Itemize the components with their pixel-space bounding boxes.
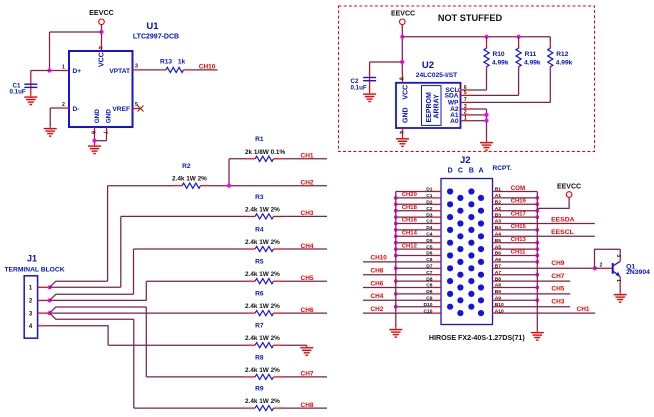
net label CH10 (U1) <box>199 63 216 70</box>
svg-text:2.4k 1W 2%: 2.4k 1W 2% <box>245 206 280 213</box>
pin U1-7 GND <box>102 127 108 136</box>
pin J2-D1 wire <box>396 187 441 193</box>
svg-text:NOT STUFFED: NOT STUFFED <box>438 13 503 23</box>
svg-text:CH11: CH11 <box>511 250 526 256</box>
pin J2-A8 wire <box>493 283 540 290</box>
pin J2-D9 wire <box>394 289 441 296</box>
label J1 <box>27 254 37 264</box>
svg-text:CH12: CH12 <box>402 243 418 249</box>
pin J2-A6 wire <box>493 257 540 264</box>
label R11 4.99k <box>524 51 541 67</box>
svg-text:B10: B10 <box>495 302 504 308</box>
node junction U1 GND <box>92 139 96 143</box>
wire J1-3 stub <box>46 312 50 314</box>
wire A2 to gnd bus <box>471 109 487 140</box>
wire R9 line <box>134 407 247 409</box>
svg-text:CH10: CH10 <box>199 63 216 70</box>
resistor R4 <box>247 246 282 251</box>
label ARRAY <box>433 94 440 119</box>
wire R5 drop <box>145 281 147 300</box>
ground D- <box>44 126 57 136</box>
svg-text:EESCL: EESCL <box>551 229 574 236</box>
wire R12 down <box>471 72 551 102</box>
node junction A1 <box>484 113 488 117</box>
power flag EEVCC (U1) <box>89 8 114 24</box>
net label CH4 <box>301 243 314 250</box>
svg-text:EESDA: EESDA <box>551 216 575 223</box>
svg-text:R7: R7 <box>255 323 264 330</box>
svg-text:D+: D+ <box>73 68 82 75</box>
svg-text:CH18: CH18 <box>402 205 418 211</box>
pin name GND (U1 pin7) <box>106 109 113 124</box>
svg-text:A6: A6 <box>495 257 502 263</box>
svg-text:R4: R4 <box>255 226 264 233</box>
label R7 <box>255 323 264 330</box>
svg-text:C4: C4 <box>426 232 433 238</box>
label C2 0.1uF <box>351 78 367 91</box>
capacitor C1 <box>24 77 37 95</box>
transistor Q1 symbol <box>613 261 621 277</box>
pin Q1-1 emitter <box>615 277 621 285</box>
label TERMINAL BLOCK <box>4 267 64 274</box>
svg-text:A8: A8 <box>495 283 502 289</box>
label LTC2997-DCB <box>133 34 179 41</box>
wire A0 to gnd bus <box>471 120 487 122</box>
pin J2-B2 wire <box>493 199 540 207</box>
svg-text:CH2: CH2 <box>301 180 314 187</box>
wire R8 line <box>146 376 246 378</box>
resistor R5 <box>247 279 282 284</box>
pin J2-D3 wire <box>394 212 441 219</box>
wire EEVCC rail <box>402 36 550 38</box>
no-connect X on VREF <box>138 106 144 112</box>
wire A1 to gnd bus <box>471 114 487 116</box>
pin J2-A4 wire (net EESCL) <box>493 229 595 237</box>
ground J2 left bus <box>389 327 402 337</box>
svg-text:A: A <box>478 168 483 175</box>
pin J1-3 <box>29 311 46 317</box>
svg-text:SDA: SDA <box>445 93 459 100</box>
pin U1-5 VREF <box>133 102 140 108</box>
pin J2-A7 wire <box>493 270 540 277</box>
wire R8 output <box>282 376 327 378</box>
label HIROSE <box>429 334 525 342</box>
wire R7 to ground <box>282 344 307 346</box>
svg-text:CH6: CH6 <box>301 307 314 314</box>
wire R4 line <box>134 248 247 250</box>
svg-text:R9: R9 <box>255 386 264 393</box>
wire R5 line <box>146 280 246 282</box>
svg-text:VREF: VREF <box>112 106 130 113</box>
svg-text:RCPT.: RCPT. <box>493 165 512 172</box>
pin J2-A10 wire (net CH1) <box>493 306 596 314</box>
label C1 0.1uF <box>10 83 26 96</box>
wire R5 output <box>282 280 327 282</box>
pin Q1-2 base <box>599 263 612 269</box>
svg-text:U1: U1 <box>146 21 159 32</box>
value R4 <box>245 239 280 246</box>
svg-text:2N3904: 2N3904 <box>626 269 650 276</box>
svg-text:1: 1 <box>29 286 33 292</box>
svg-text:LTC2997-DCB: LTC2997-DCB <box>133 34 179 41</box>
svg-text:B3: B3 <box>495 212 502 218</box>
pin J2-C5 wire <box>394 243 441 251</box>
svg-text:CH8: CH8 <box>301 402 314 409</box>
svg-text:R1: R1 <box>255 136 264 143</box>
bubble SCL <box>458 89 461 92</box>
svg-text:1k: 1k <box>178 59 186 66</box>
pin J2-A9 wire <box>493 296 540 303</box>
svg-text:R5: R5 <box>255 259 264 266</box>
value R2 <box>172 176 207 183</box>
svg-text:6: 6 <box>90 131 96 134</box>
label R5 <box>255 259 264 266</box>
svg-text:D8: D8 <box>426 276 433 282</box>
svg-text:CH9: CH9 <box>551 260 564 267</box>
net label CH1 <box>301 153 314 160</box>
svg-text:4: 4 <box>97 46 103 49</box>
wire U1 GND pins <box>95 136 107 144</box>
svg-text:C3: C3 <box>426 219 433 225</box>
pin J2-A2 wire <box>493 206 540 213</box>
svg-text:CH17: CH17 <box>511 211 527 217</box>
svg-text:B7: B7 <box>495 264 502 270</box>
label R3 <box>255 194 264 201</box>
ground J2 right bus <box>531 330 544 340</box>
svg-text:4.99k: 4.99k <box>556 60 573 67</box>
resistor R6 <box>247 311 282 316</box>
resistor R7 <box>247 343 282 348</box>
svg-text:B6: B6 <box>495 251 502 257</box>
label U1 <box>146 21 159 32</box>
svg-text:4: 4 <box>397 131 403 134</box>
label R9 <box>255 386 264 393</box>
svg-text:U2: U2 <box>422 60 434 71</box>
resistor R11 <box>516 37 521 72</box>
svg-text:R12: R12 <box>556 51 568 58</box>
svg-text:CH7: CH7 <box>301 371 314 378</box>
svg-text:ARRAY: ARRAY <box>433 94 440 119</box>
svg-text:2: 2 <box>62 102 65 108</box>
svg-text:CH6: CH6 <box>371 280 384 287</box>
pin J2-B7 wire (net CH9) <box>493 260 595 269</box>
pin J2-B6 wire <box>493 250 540 258</box>
wire R1 feed <box>229 159 247 186</box>
svg-text:VCC: VCC <box>402 85 409 100</box>
label 24LC025-I/ST <box>416 72 457 79</box>
svg-text:B1: B1 <box>495 187 502 193</box>
svg-text:C5: C5 <box>426 244 433 250</box>
label R13 1k <box>160 59 186 66</box>
svg-text:CH8: CH8 <box>371 268 384 275</box>
wire R2 line <box>108 185 174 187</box>
J2 contact dots <box>447 188 484 316</box>
svg-text:CH7: CH7 <box>551 273 564 280</box>
wire R1 output <box>282 158 327 160</box>
eeprom array box <box>422 86 442 126</box>
ground Q1 <box>614 292 627 302</box>
ground C1 <box>24 95 37 105</box>
resistor R3 <box>247 214 282 219</box>
label R6 <box>255 291 264 298</box>
svg-text:TERMINAL BLOCK: TERMINAL BLOCK <box>4 267 64 274</box>
pin J2-C2 wire <box>394 205 441 213</box>
pin J2-D7 wire <box>394 264 441 271</box>
capacitor C2 <box>363 69 376 92</box>
wire D- to ground <box>50 108 61 126</box>
net label CH2 <box>301 180 314 187</box>
node junction J1-1 <box>48 285 52 289</box>
pin Q1-3 collector <box>615 254 621 261</box>
resistor R10 <box>484 37 489 72</box>
svg-text:EEVCC: EEVCC <box>557 184 581 191</box>
pin J2-D2 wire <box>394 200 441 207</box>
svg-text:4.99k: 4.99k <box>524 60 541 67</box>
net label CH7 <box>301 371 314 378</box>
pin name VPTAT <box>109 68 130 75</box>
net label CH5 <box>301 275 314 282</box>
pin U1-2 D- <box>62 102 70 108</box>
svg-text:C6: C6 <box>426 257 433 263</box>
wire junction to D+ branch <box>50 32 102 71</box>
svg-text:CH10: CH10 <box>371 255 388 262</box>
connector J1 body <box>24 276 37 338</box>
pin J2-D5 wire <box>394 238 441 245</box>
svg-text:D6: D6 <box>426 251 433 257</box>
svg-text:R8: R8 <box>255 354 264 361</box>
svg-text:7: 7 <box>464 97 467 103</box>
label R4 <box>255 226 264 233</box>
svg-text:D-: D- <box>73 106 80 113</box>
power flag EEVCC (J2) <box>557 184 581 198</box>
svg-text:R11: R11 <box>525 51 537 58</box>
svg-text:7: 7 <box>102 131 108 134</box>
svg-text:VPTAT: VPTAT <box>109 68 130 75</box>
wire C2 branch <box>370 62 403 69</box>
svg-text:4.99k: 4.99k <box>492 60 509 67</box>
label R1 <box>255 136 264 143</box>
chip U2 body <box>396 83 461 128</box>
pin J2-D6 wire <box>394 251 441 258</box>
ground U1 <box>88 144 101 154</box>
pin J2-C4 wire <box>394 231 441 239</box>
pin name D+ <box>73 68 82 75</box>
node junction R1/R2 <box>227 184 231 188</box>
svg-text:CH13: CH13 <box>511 237 527 243</box>
wire R6 line <box>50 312 247 314</box>
wire R11 down <box>471 72 519 95</box>
wire J2 left ground bus <box>395 192 397 328</box>
pin J2-C10 wire (net CH2) <box>363 306 441 314</box>
pin U1-3 VPTAT <box>133 64 141 70</box>
dashed NOT STUFFED border <box>339 6 595 152</box>
pin U2 A1 <box>450 110 470 119</box>
wire J1-2 to R4 <box>50 294 134 300</box>
label 2N3904 <box>626 269 650 276</box>
pin J2-B9 wire (net CH5) <box>493 286 571 295</box>
wire C1 branch <box>31 71 50 77</box>
svg-text:A4: A4 <box>495 232 502 238</box>
pin name GND (U2) <box>402 107 409 123</box>
svg-text:CH3: CH3 <box>551 299 564 306</box>
svg-text:CH5: CH5 <box>301 275 314 282</box>
svg-text:A9: A9 <box>495 296 502 302</box>
wire J1-2 stub <box>46 299 50 301</box>
value R3 <box>245 206 280 213</box>
svg-text:A0: A0 <box>450 118 459 125</box>
svg-text:C: C <box>458 168 463 175</box>
svg-text:D10: D10 <box>424 302 433 308</box>
wire J2 right bus <box>536 192 538 331</box>
svg-text:2.4k 1W 2%: 2.4k 1W 2% <box>172 176 207 183</box>
pin name VREF <box>112 106 130 113</box>
svg-text:CH16: CH16 <box>402 218 418 224</box>
svg-text:D2: D2 <box>426 200 433 206</box>
wire R6 output <box>282 312 327 314</box>
wire J1-3 to R9 <box>50 313 134 319</box>
svg-text:CH4: CH4 <box>301 243 314 250</box>
value R5 <box>245 271 280 278</box>
pin J1-1 <box>29 286 46 292</box>
value R6 <box>245 303 280 310</box>
svg-text:CH14: CH14 <box>402 231 418 237</box>
svg-text:5: 5 <box>135 102 138 108</box>
node junction rail/R11 <box>517 35 521 39</box>
svg-text:A3: A3 <box>495 219 502 225</box>
label EEPROM <box>426 92 433 123</box>
svg-text:C2: C2 <box>426 206 433 212</box>
label R8 <box>255 354 264 361</box>
value R1 <box>245 149 285 156</box>
wire CH9 to Q1 <box>595 267 604 269</box>
wire R4 drop <box>133 249 135 294</box>
svg-text:D9: D9 <box>426 289 433 295</box>
node junction EEVCC rail <box>400 35 404 39</box>
svg-text:0.1uF: 0.1uF <box>10 89 26 96</box>
svg-text:3: 3 <box>135 64 138 70</box>
wire EEVCC to U1 VCC <box>101 25 103 44</box>
wire D+ net <box>50 70 62 72</box>
wire J1-1 to R2 <box>50 281 108 287</box>
pin name VCC (U2) <box>402 85 409 100</box>
svg-text:0.1uF: 0.1uF <box>351 84 367 91</box>
pin J2-C1 wire <box>394 192 441 200</box>
svg-text:24LC025-I/ST: 24LC025-I/ST <box>416 72 457 79</box>
node junction J1-2 <box>48 298 52 302</box>
svg-text:R6: R6 <box>255 291 264 298</box>
wire J1-3 to R8 <box>50 307 147 313</box>
svg-text:R3: R3 <box>255 194 264 201</box>
pin U2 A2 <box>450 104 470 113</box>
pin U2 SCL <box>445 85 470 94</box>
svg-text:R13: R13 <box>160 59 172 66</box>
svg-text:CH3: CH3 <box>301 210 314 217</box>
wire J1-4 to R7 <box>46 326 109 345</box>
label R12 4.99k <box>556 51 573 67</box>
svg-text:A10: A10 <box>495 308 504 314</box>
wire R7 line <box>108 344 247 346</box>
pin J2-B5 wire <box>493 237 540 245</box>
wire R9 output <box>282 407 327 409</box>
pin name VCC (U1) <box>98 52 105 67</box>
svg-text:D7: D7 <box>426 264 433 270</box>
svg-text:EEVCC: EEVCC <box>89 8 114 17</box>
svg-text:D4: D4 <box>426 225 433 231</box>
svg-text:GND: GND <box>94 109 101 124</box>
ground C2 <box>363 92 376 102</box>
label R2 <box>182 163 191 170</box>
svg-text:B4: B4 <box>495 225 502 231</box>
power flag EEVCC (U2) <box>391 10 415 24</box>
value R7 <box>245 335 280 342</box>
pin J2-B4 wire <box>493 224 540 232</box>
node junction D+/C1 <box>47 68 51 72</box>
node junction EEVCC/D+ <box>99 30 103 34</box>
value R8 <box>245 367 280 374</box>
svg-text:8: 8 <box>397 77 403 80</box>
pin J1-2 <box>29 299 46 305</box>
value R9 <box>245 398 280 405</box>
wire EEVCC to right bus <box>537 198 569 209</box>
pin J2-D8 wire <box>394 276 441 283</box>
svg-text:C1: C1 <box>426 193 433 199</box>
svg-text:2.4k 1W 2%: 2.4k 1W 2% <box>245 239 280 246</box>
svg-text:HIROSE FX2-40S-1.27DS(71): HIROSE FX2-40S-1.27DS(71) <box>429 334 525 342</box>
net label CH6 <box>301 307 314 314</box>
svg-text:3: 3 <box>29 311 33 317</box>
svg-text:5: 5 <box>464 90 467 96</box>
svg-text:A1: A1 <box>495 193 502 199</box>
svg-text:J2: J2 <box>460 155 471 166</box>
label Q1 <box>626 263 635 270</box>
node junction J1-3 <box>48 311 52 315</box>
svg-text:COM: COM <box>511 185 525 192</box>
label NOT STUFFED <box>438 13 503 23</box>
svg-text:B5: B5 <box>495 238 502 244</box>
svg-text:CH5: CH5 <box>551 286 564 293</box>
node junction rail/R10 <box>484 35 488 39</box>
svg-text:C8: C8 <box>426 283 433 289</box>
svg-text:C10: C10 <box>424 308 433 314</box>
resistor R1 <box>247 156 282 161</box>
pin J2-D4 wire <box>394 225 441 232</box>
node junction A0 <box>484 119 488 123</box>
resistor R8 <box>247 374 282 379</box>
pin J2-A1 wire <box>493 193 540 200</box>
pin U2-4 GND <box>397 128 403 136</box>
svg-text:1: 1 <box>62 65 65 71</box>
svg-text:D3: D3 <box>426 212 433 218</box>
svg-text:2.4k 1W 2%: 2.4k 1W 2% <box>245 271 280 278</box>
svg-text:CH15: CH15 <box>511 224 527 230</box>
wire R2 output <box>209 185 327 187</box>
node junction Q1 base <box>593 266 597 270</box>
pin J2-C3 wire <box>394 218 441 226</box>
svg-text:A7: A7 <box>495 270 502 276</box>
pin J2-D10 wire <box>394 302 441 309</box>
svg-text:2: 2 <box>599 263 602 269</box>
resistor R2 <box>174 183 209 188</box>
svg-text:CH20: CH20 <box>402 192 418 198</box>
resistor R13 <box>161 67 191 72</box>
pin name D- <box>73 106 80 113</box>
wire R10 down <box>471 72 487 90</box>
svg-text:A5: A5 <box>495 244 502 250</box>
ground U2 <box>396 136 409 146</box>
wire J1-1 stub <box>46 286 50 288</box>
wire VPTAT to R13 <box>141 69 161 71</box>
resistor R12 <box>548 37 553 72</box>
